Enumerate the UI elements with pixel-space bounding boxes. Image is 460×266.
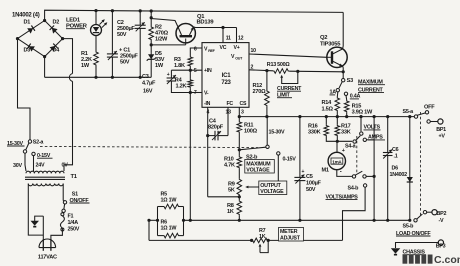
label meter plus xyxy=(342,148,345,154)
svg-text:1.2K: 1.2K xyxy=(176,84,187,90)
svg-text:1.5Ω: 1.5Ω xyxy=(322,106,334,112)
resistor R10 xyxy=(237,156,242,169)
svg-text:OUT: OUT xyxy=(235,57,243,61)
label R10 4.7K xyxy=(224,157,235,169)
wire R8 to bottom rail xyxy=(238,215,240,220)
svg-text:BP3: BP3 xyxy=(436,244,446,250)
svg-text:1Ω 1W: 1Ω 1W xyxy=(161,198,178,204)
label 30V xyxy=(13,163,22,169)
wire C5 upper xyxy=(299,117,301,178)
label pin 5 xyxy=(194,68,197,74)
label pin 13 xyxy=(226,110,232,116)
node R1 ground xyxy=(94,76,97,79)
label OUTPUT VOLTAGE xyxy=(259,181,287,195)
wire VOLTS contact up xyxy=(360,117,362,132)
transformer T1 secondary xyxy=(26,171,64,173)
wire Q1 collector xyxy=(151,18,178,27)
label C1 xyxy=(119,48,138,66)
label R17 33K xyxy=(341,123,351,135)
label pin 4 xyxy=(207,110,210,116)
wire D6 lower xyxy=(409,186,411,221)
label R4 1.2K xyxy=(175,77,187,89)
label METER ADJUST xyxy=(279,228,304,242)
wire bridge right to transformer xyxy=(63,39,73,74)
svg-text:VOLTAGE: VOLTAGE xyxy=(260,189,284,195)
capacitor C2 xyxy=(135,22,146,31)
svg-text:R16: R16 xyxy=(308,123,318,129)
svg-text:V+: V+ xyxy=(234,45,240,51)
svg-text:R12: R12 xyxy=(253,83,263,89)
label R5 1ohm 1W xyxy=(161,192,178,204)
label D5 33V 1W xyxy=(155,51,165,69)
svg-text:+IN: +IN xyxy=(204,68,212,74)
label LOAD ON/OFF xyxy=(396,231,431,237)
svg-text:1N4002 (4): 1N4002 (4) xyxy=(12,13,40,19)
switch S3 xyxy=(336,79,348,96)
wire ground rail xyxy=(45,76,152,78)
resistor R16 xyxy=(324,117,329,137)
wire R7 wiper xyxy=(259,240,269,252)
label FC xyxy=(227,101,234,107)
wire shunt box right bar xyxy=(183,207,185,236)
svg-text:-IN: -IN xyxy=(204,101,211,107)
wire primary right xyxy=(62,184,64,201)
node pin11 tap xyxy=(221,26,224,29)
wire S4b amps contact down xyxy=(343,187,366,240)
node AMPS rail top xyxy=(373,115,376,118)
wire R1 to ground rail xyxy=(95,66,97,77)
switch S2-a xyxy=(23,140,35,156)
label 117VAC xyxy=(38,254,57,260)
node C4 left xyxy=(206,134,209,137)
switch S1 xyxy=(62,201,67,213)
svg-text:.1: .1 xyxy=(394,154,398,160)
wire LED1 to R1 xyxy=(95,36,97,52)
label pin 11 xyxy=(226,36,231,42)
node shunt box right xyxy=(182,219,185,222)
wire S3 to R14 xyxy=(336,92,339,97)
wire pin 6 VREF xyxy=(190,48,202,56)
svg-text:0-15V: 0-15V xyxy=(283,157,297,163)
label pin 6 xyxy=(194,47,197,53)
node R14 rail xyxy=(336,115,339,118)
svg-text:1K: 1K xyxy=(259,234,266,240)
wire pin 13 down xyxy=(227,107,229,135)
wire R15 to rail xyxy=(346,113,348,117)
node S2-b common xyxy=(238,148,241,151)
svg-text:117VAC: 117VAC xyxy=(38,254,57,260)
svg-text:250V: 250V xyxy=(68,227,80,233)
label BP3 xyxy=(436,244,446,250)
meter M1 xyxy=(328,152,345,169)
wire Q1 base xyxy=(151,44,186,46)
capacitor C6 xyxy=(383,150,393,159)
switch S4-b xyxy=(352,171,367,187)
svg-text:4.7µF: 4.7µF xyxy=(142,81,156,87)
svg-text:0V: 0V xyxy=(62,162,69,168)
svg-text:D1: D1 xyxy=(24,20,31,26)
node R15 rail xyxy=(345,115,348,118)
node CS rail junction xyxy=(238,115,241,118)
wire output positive rail xyxy=(239,116,414,118)
node pin7 junction xyxy=(189,91,192,94)
label pin 12 xyxy=(238,36,244,42)
resistor R3 xyxy=(188,56,193,67)
node Q1 collector junction xyxy=(150,16,153,19)
svg-text:F1: F1 xyxy=(68,214,74,220)
svg-text:1/2W: 1/2W xyxy=(155,37,168,43)
label C6 .1 xyxy=(392,147,399,160)
label 15-30V position xyxy=(269,129,286,135)
wire D5 to ground xyxy=(150,62,152,78)
label +IN xyxy=(204,68,212,74)
node R3 pin5 xyxy=(189,69,192,72)
svg-text:OFF: OFF xyxy=(424,104,435,110)
label Q2 TIP3055 xyxy=(320,35,341,47)
node D6 rail xyxy=(408,115,411,118)
svg-text:TIP3055: TIP3055 xyxy=(320,41,341,47)
svg-text:10: 10 xyxy=(251,48,257,54)
resistor R5 xyxy=(158,204,184,209)
svg-text:1.8K: 1.8K xyxy=(174,63,185,69)
wire R11 to S2b node xyxy=(238,133,240,156)
svg-text:11: 11 xyxy=(226,36,231,42)
svg-text:REF: REF xyxy=(208,49,215,53)
capacitor C1 xyxy=(107,51,118,60)
label CHASSIS xyxy=(403,250,427,256)
label D3 xyxy=(24,48,31,54)
svg-text:30V: 30V xyxy=(13,163,22,169)
label 0V xyxy=(62,162,69,168)
node R13 loop right xyxy=(296,70,299,73)
svg-text:D6: D6 xyxy=(392,166,399,172)
svg-text:15-30V: 15-30V xyxy=(269,129,286,135)
wire pin4 to R9 bottom xyxy=(208,196,240,198)
node C2 ground xyxy=(139,76,142,79)
wire S2b 15-30V contact up xyxy=(266,117,268,146)
binding post BP2 xyxy=(432,210,437,215)
label S2-a xyxy=(33,139,45,145)
svg-text:VC: VC xyxy=(220,45,227,51)
svg-text:723: 723 xyxy=(221,80,231,86)
node meter top junction xyxy=(336,140,339,143)
svg-text:+V: +V xyxy=(439,134,446,140)
label S1 ON/OFF xyxy=(70,192,90,204)
wire F1 to plug xyxy=(51,229,63,240)
wire pin 4 down xyxy=(207,107,209,197)
transformer T1 primary xyxy=(28,184,63,186)
svg-text:T1: T1 xyxy=(71,174,78,180)
fuse F1 xyxy=(60,213,64,231)
label C2 xyxy=(117,20,135,38)
label M1 xyxy=(322,168,329,174)
node C6 bottom xyxy=(386,219,389,222)
label R8 1K xyxy=(227,203,234,215)
label C3 4.7uF 16V xyxy=(142,72,170,94)
linkage S5 dashed xyxy=(420,112,422,216)
wire R13 wiper loop xyxy=(280,71,298,83)
label R14 1.5ohm xyxy=(322,100,334,113)
node R9 bottom pin4 xyxy=(238,195,241,198)
label F1 1/4A 250V xyxy=(68,214,80,233)
wire lower meter rail xyxy=(149,239,252,241)
diode D3 xyxy=(18,39,45,57)
label 15-30V xyxy=(7,141,25,147)
label D1 xyxy=(24,20,31,26)
switch S5-b xyxy=(414,211,427,223)
svg-text:BD139: BD139 xyxy=(197,20,215,26)
svg-text:S3: S3 xyxy=(347,78,353,84)
wire shunt left segment xyxy=(149,219,158,221)
label BP1 +V xyxy=(436,127,446,140)
label CURRENT LIMIT xyxy=(277,86,302,99)
svg-text:-V: -V xyxy=(439,218,445,224)
wire meter bottom xyxy=(337,170,352,177)
label R3 1.8K xyxy=(174,57,185,69)
wire C6 upper xyxy=(387,117,389,153)
wire S3 to R15 xyxy=(345,96,348,101)
svg-text:1K: 1K xyxy=(227,209,234,215)
node R7 left xyxy=(250,239,253,242)
wire R3 to pin5 xyxy=(189,67,191,70)
svg-text:VOLTAGE: VOLTAGE xyxy=(246,168,270,174)
svg-text:D4: D4 xyxy=(53,48,61,54)
label R2 470ohm 1/2W xyxy=(155,25,169,43)
node R8 bottom xyxy=(238,219,241,222)
svg-text:+: + xyxy=(167,72,170,78)
wire bridge left to S2-a xyxy=(18,39,31,140)
svg-text:100µF: 100µF xyxy=(306,181,322,187)
svg-text:M1: M1 xyxy=(322,168,329,174)
svg-text:1/4A: 1/4A xyxy=(68,220,79,226)
svg-text:FC: FC xyxy=(227,101,234,107)
node R12 bottom rail xyxy=(265,115,268,118)
potentiometer R13 xyxy=(273,69,289,74)
node bridge left xyxy=(16,37,19,40)
svg-text:Q2: Q2 xyxy=(320,35,327,41)
label R15 3.9ohm 1W xyxy=(352,104,373,116)
wire C1 lower xyxy=(111,57,113,77)
wire R10 to R9 xyxy=(238,169,240,179)
label D2 xyxy=(53,20,60,26)
node bridge right xyxy=(61,37,64,40)
svg-text:R13 500Ω: R13 500Ω xyxy=(267,62,291,68)
wire D6 upper xyxy=(409,117,411,174)
label S4-b xyxy=(348,186,360,192)
wire AMPS contact xyxy=(367,139,375,141)
label S3 xyxy=(347,78,353,84)
label 1A xyxy=(330,90,337,96)
label MAXIMUM CURRENT xyxy=(358,79,385,93)
node VOLTS rail xyxy=(359,115,362,118)
svg-text:50V: 50V xyxy=(117,32,127,38)
diode D4 xyxy=(45,39,63,57)
linkage S4 dashed xyxy=(356,136,358,175)
label V+ xyxy=(234,45,240,51)
wire AC down to 0V tap xyxy=(64,81,73,171)
svg-text:270Ω: 270Ω xyxy=(253,89,267,95)
node AMPS rail bottom xyxy=(373,219,376,222)
svg-text:R17: R17 xyxy=(341,123,351,129)
resistor R1 xyxy=(94,51,99,66)
wire pin 10 VOUT to Q2 base xyxy=(249,54,327,57)
wire lower meter rail right xyxy=(268,239,342,241)
svg-text:1W: 1W xyxy=(155,63,164,69)
wire C2 upper xyxy=(139,11,141,25)
wire Q1 emitter to pins xyxy=(194,26,237,29)
label R7 1K xyxy=(259,228,266,240)
wire pin 7 line xyxy=(190,92,202,94)
capacitor C5 xyxy=(294,175,305,184)
label -IN xyxy=(204,101,211,107)
svg-text:5K: 5K xyxy=(228,188,235,194)
svg-text:S5-a: S5-a xyxy=(403,109,415,115)
svg-text:33K: 33K xyxy=(341,130,351,136)
label S4-a xyxy=(345,144,357,150)
wire C6 lower xyxy=(387,156,389,221)
label C5 100uF 50V xyxy=(302,169,322,193)
wire bottom negative rail xyxy=(184,219,410,221)
wire 30V tap xyxy=(25,153,26,171)
wire pin 3 down xyxy=(238,107,240,121)
wire Q2 collector up xyxy=(342,12,345,49)
wire R14 to rail xyxy=(336,112,338,117)
svg-text:BP2: BP2 xyxy=(437,211,447,217)
svg-text:OUTPUT: OUTPUT xyxy=(260,183,281,189)
zener D5 xyxy=(147,45,156,62)
node bridge bottom xyxy=(43,55,46,58)
svg-text:+: + xyxy=(302,169,305,175)
node shunt box left xyxy=(156,219,159,222)
op-amp IC1 723 body xyxy=(202,43,249,108)
node bridge top xyxy=(43,19,46,22)
label 24V xyxy=(36,162,45,168)
svg-text:50V: 50V xyxy=(120,60,130,66)
label R16 330K xyxy=(308,123,321,135)
svg-text:ADJUST: ADJUST xyxy=(280,235,301,241)
diode D6 xyxy=(407,174,413,186)
wire top positive rail xyxy=(45,10,344,20)
transistor Q1 xyxy=(176,24,195,45)
svg-text:C5: C5 xyxy=(306,174,313,180)
wire R16 bottom xyxy=(326,137,352,142)
svg-text:V-: V- xyxy=(204,91,209,97)
svg-text:3.9Ω 1W: 3.9Ω 1W xyxy=(352,109,373,115)
wire shunt box left bar xyxy=(157,207,159,236)
resistor R12 xyxy=(265,71,270,117)
label pin 7 xyxy=(194,90,197,96)
svg-text:50V: 50V xyxy=(306,187,316,193)
label V- xyxy=(204,91,209,97)
svg-text:6: 6 xyxy=(194,47,197,53)
label meter minus xyxy=(340,170,342,176)
svg-text:1Ω 1W: 1Ω 1W xyxy=(161,226,178,232)
resistor R8 xyxy=(237,200,242,215)
svg-text:D3: D3 xyxy=(24,48,31,54)
wire hop over ground rail xyxy=(69,74,72,82)
label R11 100ohm xyxy=(244,123,258,135)
wire primary left xyxy=(28,184,43,239)
node R12 top xyxy=(265,69,268,72)
wire S4b volts contact xyxy=(366,175,374,177)
node C5 rail xyxy=(298,115,301,118)
svg-text:1mA: 1mA xyxy=(332,159,342,164)
label S5-a xyxy=(403,109,415,115)
svg-text:METER: METER xyxy=(280,229,298,235)
ground chassis xyxy=(391,248,401,255)
label 1N4002 (4) xyxy=(12,13,40,19)
svg-text:16V: 16V xyxy=(143,89,153,95)
switch S4-a xyxy=(353,132,367,143)
label BP2 -V xyxy=(437,211,447,224)
wire pin 2 CL line xyxy=(249,70,273,71)
svg-text:-: - xyxy=(340,170,342,176)
binding post BP3 xyxy=(438,240,443,245)
svg-text:5: 5 xyxy=(194,68,197,74)
node C6 rail xyxy=(386,115,389,118)
wire S1 to F1 xyxy=(62,213,63,216)
svg-text:S1: S1 xyxy=(72,192,78,198)
node R2 rail xyxy=(150,9,153,12)
resistor R4 xyxy=(188,70,193,92)
svg-text:S5-b: S5-b xyxy=(403,224,415,230)
switch S2-b xyxy=(239,145,280,155)
transistor Q2 xyxy=(327,47,347,67)
wire bridge negative drop xyxy=(44,57,46,78)
wire R2 to base node xyxy=(150,41,152,45)
svg-text:S4-a: S4-a xyxy=(345,144,357,150)
wire C2 lower xyxy=(139,29,141,78)
diode D1 xyxy=(18,21,45,39)
label LED1 POWER xyxy=(66,18,88,30)
node C5 bottom xyxy=(298,219,301,222)
binding post BP1 xyxy=(438,119,443,124)
svg-text:S4-b: S4-b xyxy=(348,186,360,192)
capacitor C4 xyxy=(208,131,228,141)
svg-text:C3: C3 xyxy=(142,74,149,80)
watermark xyxy=(403,254,460,266)
wire meter top xyxy=(336,141,338,152)
label OFF xyxy=(424,104,435,110)
node R7 right xyxy=(267,239,270,242)
resistor R17 xyxy=(335,117,340,142)
wire V- down to bottom rail xyxy=(189,93,191,221)
wire C3 upper xyxy=(170,70,172,78)
svg-text:1N4002: 1N4002 xyxy=(390,172,408,178)
wire C5 lower xyxy=(299,181,301,221)
svg-text:100Ω: 100Ω xyxy=(244,129,258,135)
label VREF xyxy=(204,47,216,54)
label Q1 BD139 xyxy=(197,14,215,26)
node shunt left xyxy=(147,219,150,222)
label S2-b xyxy=(246,155,258,161)
node V- bottom xyxy=(189,219,192,222)
svg-text:12: 12 xyxy=(238,36,244,42)
label R6 1ohm 1W xyxy=(161,220,178,232)
diode D2 xyxy=(45,21,63,39)
wire shunt drop to lower rail xyxy=(148,220,150,240)
svg-text:D2: D2 xyxy=(53,20,60,26)
node R16 rail xyxy=(325,115,328,118)
node C1 ground xyxy=(111,76,114,79)
wire R9 wiper xyxy=(245,155,278,188)
linkage S2 dashed xyxy=(40,146,258,147)
LED LED1 xyxy=(91,19,108,35)
svg-text:4.7K: 4.7K xyxy=(224,163,235,169)
wire R9 to R8 xyxy=(238,196,240,200)
wire AMPS column xyxy=(373,117,375,221)
potentiometer R7 xyxy=(252,238,269,243)
